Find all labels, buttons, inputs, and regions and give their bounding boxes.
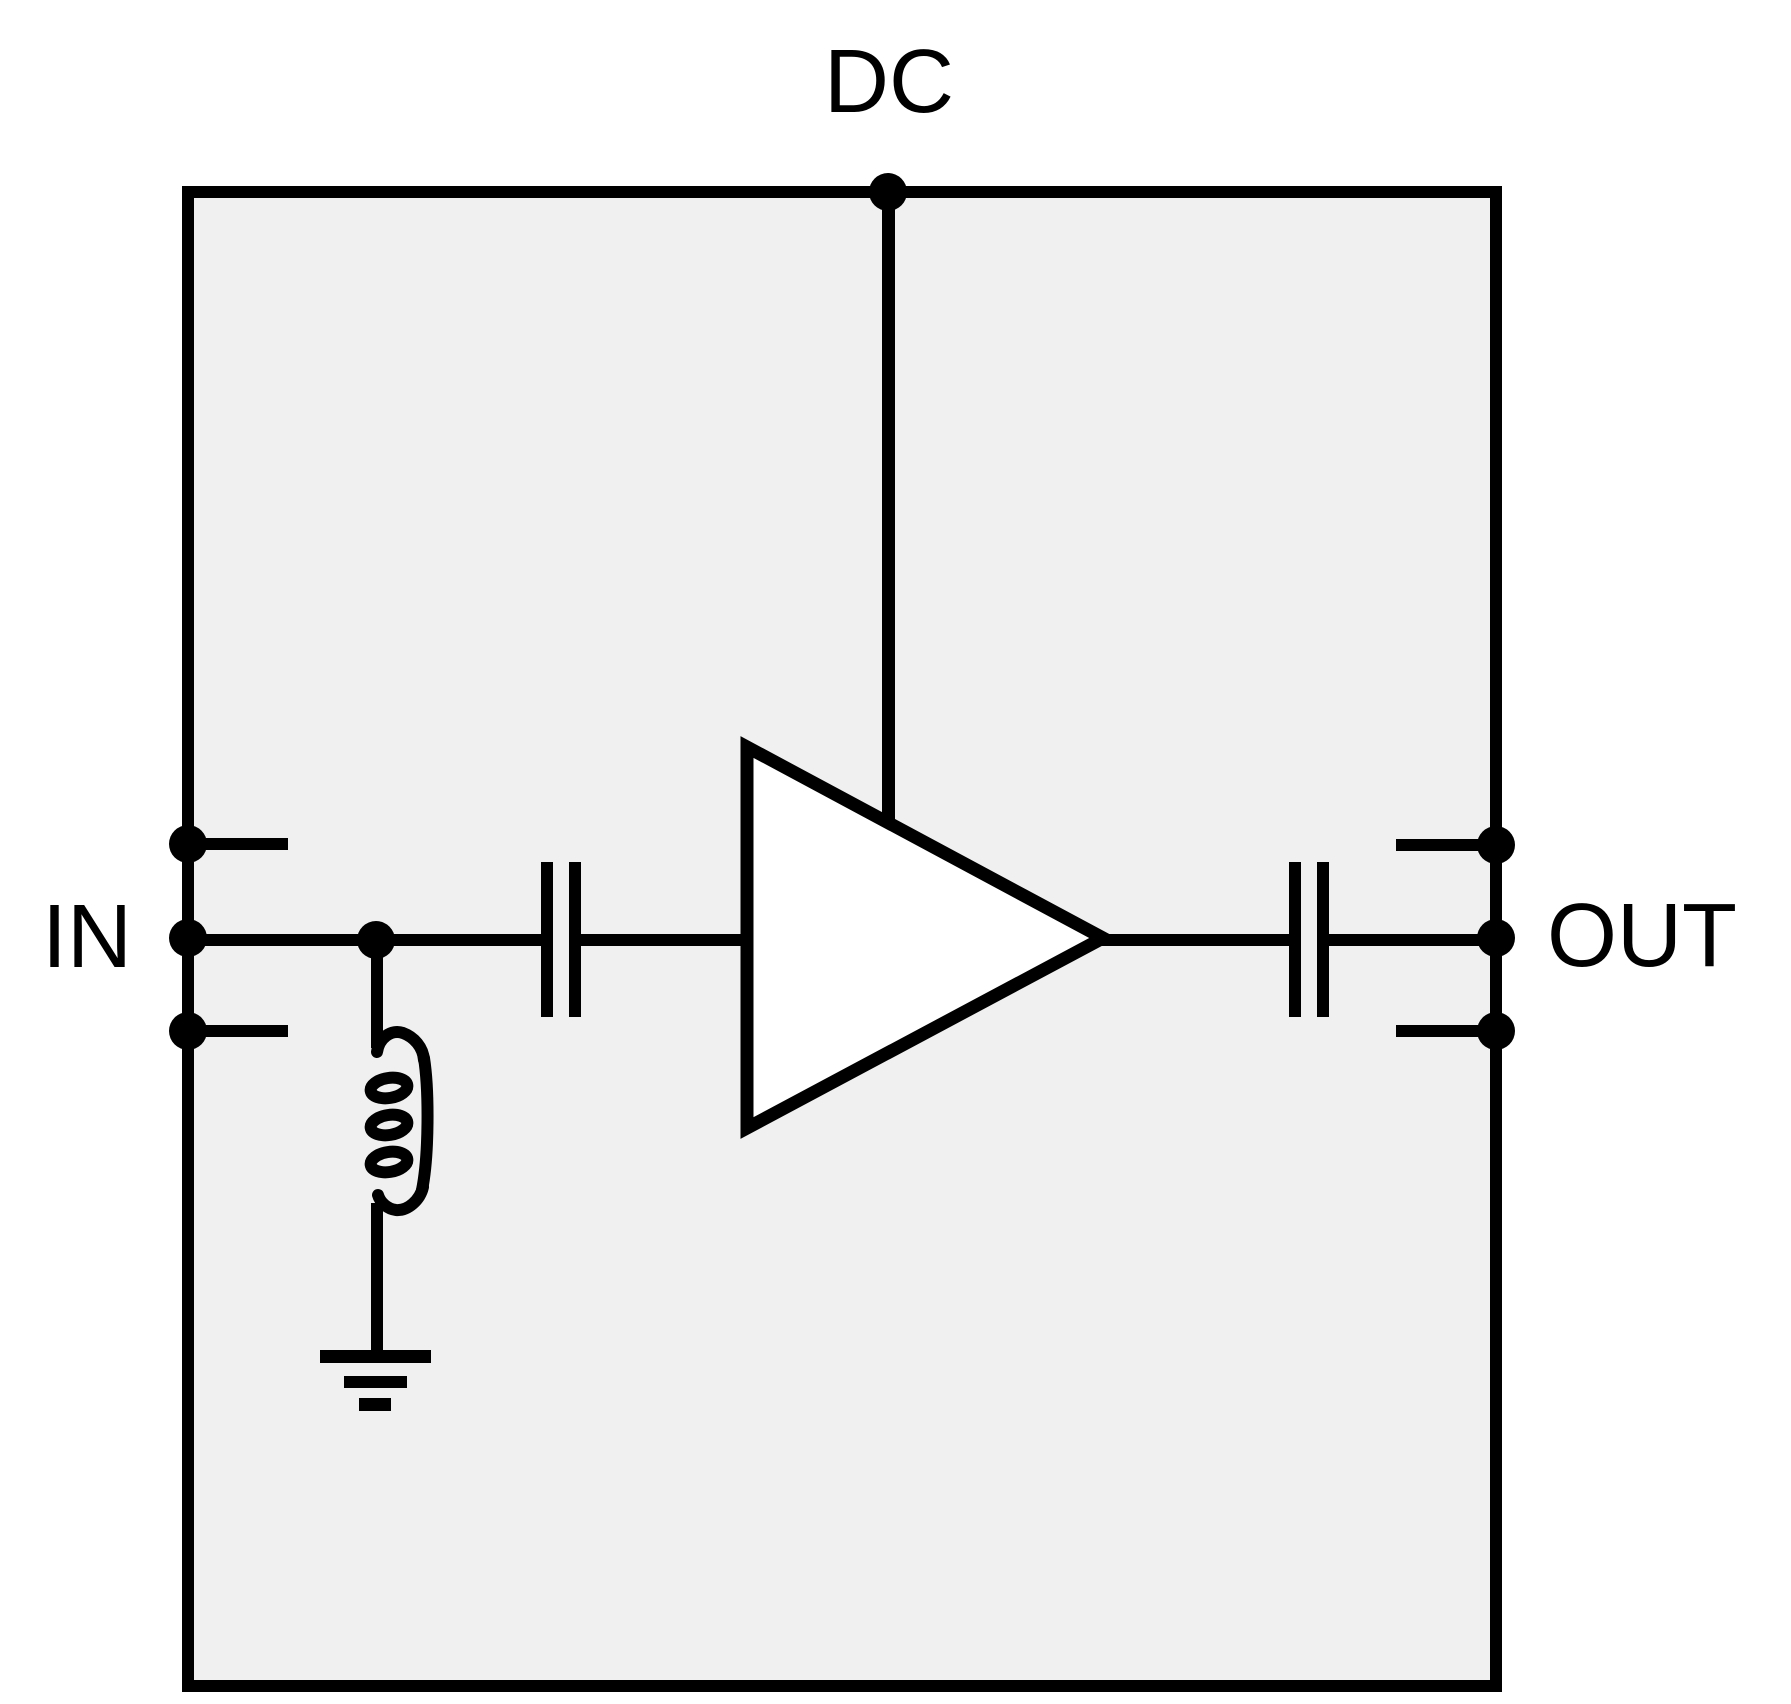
ground [320, 1350, 431, 1411]
svg-text:OUT: OUT [1547, 886, 1737, 986]
wire OUT bottom stub [1396, 1025, 1496, 1037]
node IN bottom shield pin [169, 1012, 207, 1050]
wire DC feed (vertical from top border to amplifier) [882, 192, 895, 852]
node input junction [357, 921, 395, 959]
capacitor C1 (input DC block) [541, 862, 581, 1017]
wire IN top stub [188, 838, 288, 850]
svg-text:DC: DC [824, 32, 954, 132]
inductor L1 (shunt coil) [369, 1032, 427, 1210]
op-amp U1 (amplifier triangle) [747, 747, 1103, 1128]
capacitor C2 (output DC block) [1289, 862, 1329, 1017]
wire inductor bottom lead [371, 1203, 383, 1350]
node OUT top shield pin [1477, 826, 1515, 864]
svg-text:IN: IN [42, 887, 132, 987]
wire C1 to amplifier input [581, 934, 753, 946]
wire IN bottom stub [188, 1025, 288, 1037]
wire inductor top lead [371, 940, 383, 1048]
node OUT bottom shield pin [1477, 1012, 1515, 1050]
node DC (junction dot on top border) [869, 173, 907, 211]
wire IN to coupling capacitor C1 [188, 934, 541, 946]
node IN top shield pin [169, 825, 207, 863]
amplifier block outline (shaded box) [188, 192, 1496, 1686]
wire amplifier output to capacitor C2 [1095, 934, 1289, 946]
wire OUT top stub [1396, 839, 1496, 851]
node IN (center pin) [169, 919, 207, 957]
node OUT (center pin) [1477, 919, 1515, 957]
wire C2 to OUT port [1329, 934, 1496, 946]
